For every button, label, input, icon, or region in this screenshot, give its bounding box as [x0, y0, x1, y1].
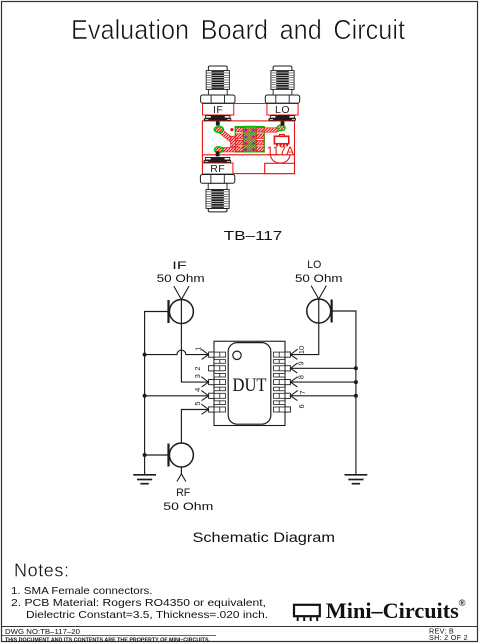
SMA connector hex nut: [200, 175, 234, 184]
DUT pin-1 marker circle: [233, 351, 241, 359]
svg-text:50 Ohm: 50 Ohm: [157, 273, 205, 285]
SMA connector center pin: [216, 151, 220, 156]
wire: left bus from IF bar to ground: [145, 312, 169, 475]
svg-text:®: ®: [459, 598, 466, 609]
DUT outer rect: [214, 341, 285, 425]
wire: right bus from LO bar to ground: [332, 311, 356, 475]
svg-text:Evaluation Board and Circuit: Evaluation Board and Circuit: [71, 14, 405, 45]
IF microstrip trace (hatched): [219, 130, 244, 143]
LO connector label box: [267, 104, 298, 116]
svg-text:7: 7: [298, 390, 307, 394]
DUT pin pads left: [209, 352, 214, 357]
IF pin land (green pad): [214, 127, 223, 133]
LO microstrip trace (hatched): [256, 128, 282, 130]
RF microstrip trace (hatched): [218, 147, 249, 152]
right ground: [345, 474, 368, 476]
SMA connector neck: [208, 89, 227, 95]
pin 8 arrow: [290, 377, 297, 387]
junction dot pin 8: [354, 380, 358, 384]
SMA connector threaded barrel: [271, 71, 294, 90]
svg-text:2: 2: [193, 366, 202, 370]
wire: RF line up to pin 5: [181, 410, 208, 444]
pin 4 arrow: [201, 390, 208, 400]
IC cluster soldermask outline (green): [235, 127, 264, 152]
svg-text:117A: 117A: [267, 146, 295, 158]
junction dot pin 7: [354, 394, 358, 398]
svg-text:50 Ohm: 50 Ohm: [163, 501, 213, 513]
PCB mounting arc: [271, 155, 290, 163]
SMA connector neck: [208, 183, 227, 189]
svg-text:TB–117: TB–117: [224, 228, 282, 243]
wire: bus to pin 4: [145, 395, 209, 397]
IF port connector symbol: [169, 300, 193, 324]
SMA connector cap: [273, 66, 292, 72]
DUT body rounded: [228, 343, 271, 425]
svg-text:6: 6: [297, 404, 306, 408]
svg-text:LO: LO: [307, 259, 321, 271]
svg-text:50 Ohm: 50 Ohm: [295, 273, 343, 285]
svg-text:SH: 2 OF 2: SH: 2 OF 2: [429, 633, 468, 642]
SMA connector center pin: [281, 121, 285, 125]
left ground: [133, 474, 156, 476]
SMA connector cap: [208, 66, 227, 72]
svg-text:DUT: DUT: [233, 376, 267, 396]
footer top line: [2, 626, 478, 628]
pin 9 arrow: [290, 363, 297, 373]
svg-text:2. PCB Material: Rogers RO4350: 2. PCB Material: Rogers RO4350 or equiva…: [11, 597, 266, 609]
SMA connector hex nut: [201, 95, 235, 103]
footer mid line: [2, 635, 217, 637]
svg-text:DWG NO:TB–117–20: DWG NO:TB–117–20: [5, 629, 80, 636]
RF pin land (green pad): [215, 147, 223, 153]
svg-text:RF: RF: [210, 163, 225, 175]
svg-text:Notes:: Notes:: [14, 561, 70, 581]
wire: IF line down to pin 3: [181, 300, 208, 383]
wire: pin 8 to right bus: [290, 381, 356, 383]
junction dot at RF row: [143, 453, 147, 457]
SMA connector flange: [206, 116, 230, 119]
DUT pin pads right: [285, 352, 290, 357]
LO pin land (green pad): [277, 125, 285, 131]
IF trace elbow: [231, 136, 238, 147]
svg-text:RF: RF: [176, 487, 190, 499]
junction dot at pin4 row: [143, 394, 147, 398]
svg-text:9: 9: [297, 361, 306, 365]
svg-text:Dielectric Constant=3.5, Thick: Dielectric Constant=3.5, Thickness=.020 …: [26, 609, 268, 621]
svg-text:1: 1: [194, 347, 203, 351]
SMA connector neck: [273, 89, 292, 95]
RF port connector symbol: [169, 443, 193, 467]
SMA connector flange: [205, 158, 229, 161]
DUT IC body footprint (green hatch): [244, 127, 257, 152]
svg-text:Mini–Circuits: Mini–Circuits: [326, 598, 459, 623]
svg-text:IF: IF: [172, 260, 187, 272]
junction dot at pin1 row: [143, 353, 147, 357]
svg-text:1. SMA Female connectors.: 1. SMA Female connectors.: [11, 585, 153, 597]
SMA connector flange: [270, 116, 294, 119]
case style icon (red component): [274, 136, 288, 144]
wire: bus to RF bar: [145, 454, 169, 456]
SMA connector hex nut: [265, 95, 299, 103]
wire: pin 9 to right bus: [290, 367, 356, 369]
LO port connector symbol: [307, 299, 331, 323]
PCB internal horizontal edge line: [202, 154, 294, 156]
DUT IC right pads: [256, 127, 264, 132]
pin 7 arrow: [290, 390, 297, 400]
svg-text:Schematic Diagram: Schematic Diagram: [193, 529, 336, 545]
svg-text:4: 4: [193, 388, 202, 392]
DUT IC left pads: [236, 127, 244, 132]
pin 5 arrow: [201, 404, 208, 414]
pin 3 arrow: [201, 377, 208, 387]
SMA connector center pin: [216, 121, 220, 125]
svg-text:10: 10: [297, 346, 306, 354]
via (red dot): [230, 128, 233, 131]
junction dot pin 9: [354, 366, 358, 370]
wire: pin 7 to right bus: [290, 395, 356, 397]
svg-text:THIS DOCUMENT AND ITS CONTENTS: THIS DOCUMENT AND ITS CONTENTS ARE THE P…: [5, 638, 210, 644]
svg-text:8: 8: [297, 375, 306, 379]
wire: bus to pin 1 with hop over IF line: [145, 350, 209, 355]
evaluation board PCB outline: [202, 121, 294, 174]
SMA connector threaded barrel: [206, 71, 229, 90]
PCB bottom-right rectangle: [265, 163, 295, 173]
Mini-Circuits logo icon: [294, 605, 320, 616]
svg-text:LO: LO: [275, 104, 290, 116]
svg-text:5: 5: [193, 401, 202, 405]
svg-text:IF: IF: [213, 104, 223, 116]
DUT lead ladder right: [274, 352, 286, 357]
SMA connector threaded barrel: [206, 190, 229, 209]
DUT IC vias (magenta): [245, 129, 248, 132]
IF connector label box: [203, 104, 234, 116]
wire: RF arrow tail below circle: [180, 467, 182, 474]
RF connector label box: [203, 163, 233, 174]
pin 10 arrow: [290, 349, 297, 359]
DUT lead ladder left: [214, 352, 226, 357]
svg-text:3: 3: [193, 374, 202, 378]
wire: LO line down to pin 10: [290, 299, 318, 355]
red line connecting connector boxes: [203, 103, 299, 105]
SMA connector cap: [208, 208, 227, 212]
pin 1 arrow: [201, 349, 208, 359]
